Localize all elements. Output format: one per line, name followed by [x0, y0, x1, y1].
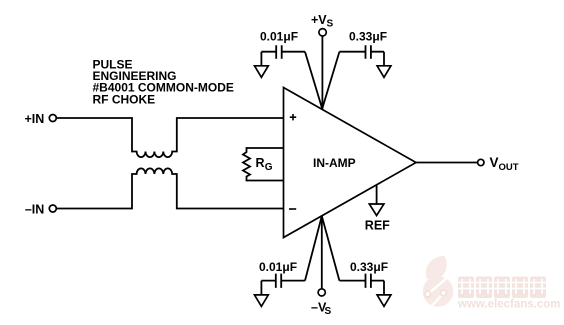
svg-text:IN-AMP: IN-AMP: [313, 156, 356, 170]
svg-text:S: S: [327, 19, 334, 30]
svg-text:0.33μF: 0.33μF: [349, 29, 387, 43]
svg-text:www.elecfans.com: www.elecfans.com: [457, 299, 560, 311]
svg-text:+IN: +IN: [24, 112, 44, 126]
svg-text:–IN: –IN: [25, 203, 44, 217]
svg-text:V: V: [490, 155, 499, 170]
svg-text:+V: +V: [311, 13, 327, 27]
svg-text:REF: REF: [365, 219, 390, 233]
svg-text:0.01μF: 0.01μF: [259, 260, 297, 274]
svg-text:S: S: [325, 306, 332, 317]
svg-text:0.33μF: 0.33μF: [350, 260, 388, 274]
svg-text:OUT: OUT: [499, 162, 519, 173]
svg-text:R: R: [256, 156, 265, 170]
svg-text:G: G: [265, 162, 273, 173]
svg-text:0.01μF: 0.01μF: [260, 29, 298, 43]
svg-text:RF CHOKE: RF CHOKE: [93, 92, 156, 106]
